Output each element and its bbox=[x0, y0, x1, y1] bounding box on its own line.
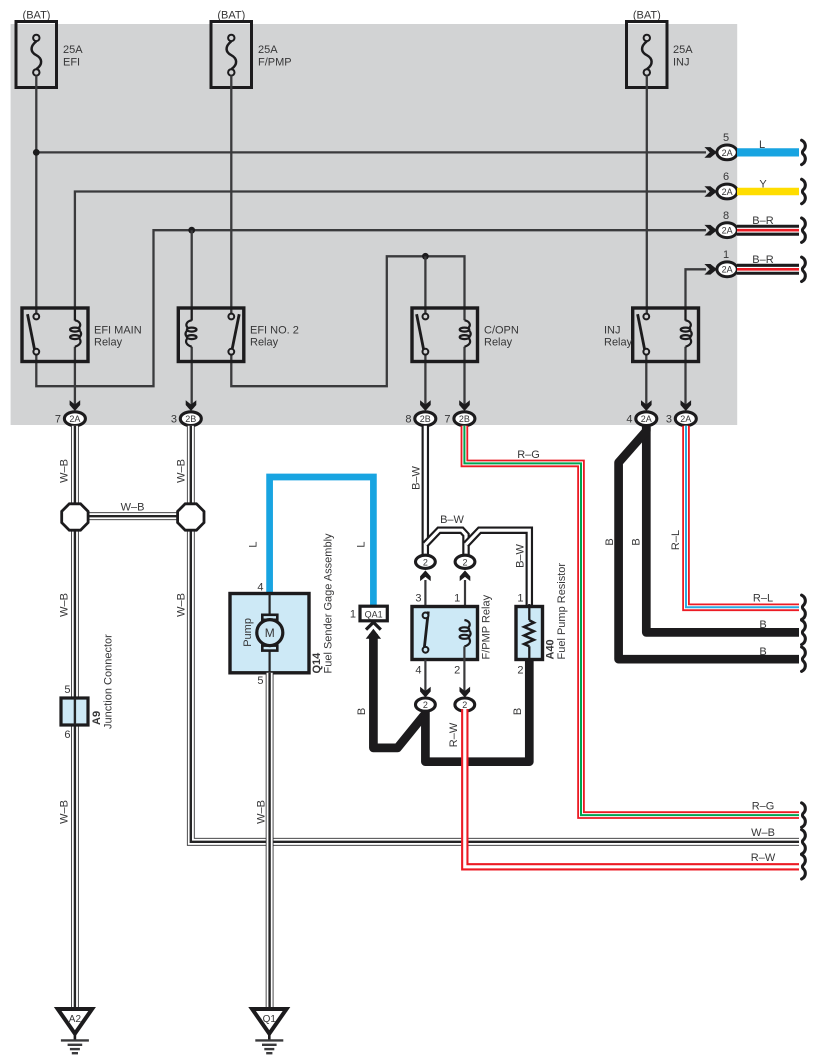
wire R-W from pin 2 connector to page edge bbox=[465, 709, 799, 867]
connector 2 below F/PMP relay pin 4 bbox=[416, 687, 436, 711]
relay C/OPN bbox=[412, 308, 519, 362]
wire W-B between octagon junctions bbox=[75, 515, 191, 517]
svg-text:25A: 25A bbox=[258, 44, 278, 56]
continuation curly for B lower bbox=[802, 647, 806, 671]
svg-text:W–B: W–B bbox=[59, 800, 71, 824]
wire L blue stub bbox=[737, 148, 799, 156]
continuation curly for R-W bbox=[802, 855, 806, 879]
node: junction dot on EFI fuse line bbox=[33, 149, 40, 156]
svg-text:R–L: R–L bbox=[753, 592, 773, 604]
svg-text:1: 1 bbox=[723, 249, 729, 261]
wire B-W from 8 2B down to F/PMP relay connector bbox=[424, 426, 426, 555]
svg-text:25A: 25A bbox=[673, 44, 693, 56]
svg-text:6: 6 bbox=[723, 171, 729, 183]
svg-text:5: 5 bbox=[723, 132, 729, 144]
svg-text:A2: A2 bbox=[69, 1014, 82, 1025]
svg-text:Q14: Q14 bbox=[311, 652, 323, 674]
connector 7 2A below EFI MAIN relay bbox=[55, 400, 86, 425]
svg-text:2A: 2A bbox=[641, 414, 652, 424]
relay F/PMP bbox=[412, 592, 493, 676]
svg-text:2: 2 bbox=[423, 700, 428, 710]
wire F/PMP pin 2 down to connector bbox=[463, 646, 465, 691]
continuation curly for R-L bbox=[802, 595, 806, 619]
svg-text:(BAT): (BAT) bbox=[23, 9, 51, 21]
wire B-W from pin 1 connector to A40 pin 1 bbox=[466, 530, 529, 606]
wire: EFI MAIN coil bottom to connector 7 2A bbox=[74, 347, 76, 405]
svg-text:Junction Connector: Junction Connector bbox=[103, 634, 115, 729]
svg-text:B: B bbox=[631, 538, 643, 545]
wire: C/OPN bus down to C/OPN switch bbox=[424, 256, 426, 313]
svg-text:L: L bbox=[356, 541, 368, 547]
continuation curly for Y bbox=[802, 179, 806, 203]
svg-text:2B: 2B bbox=[185, 414, 196, 424]
svg-text:Relay: Relay bbox=[484, 336, 513, 348]
svg-text:EFI MAIN: EFI MAIN bbox=[94, 324, 142, 336]
svg-text:7: 7 bbox=[444, 414, 450, 426]
svg-text:R–G: R–G bbox=[752, 800, 775, 812]
svg-text:2A: 2A bbox=[722, 226, 733, 236]
svg-text:(BAT): (BAT) bbox=[217, 9, 245, 21]
connector 4 2A below INJ relay bbox=[626, 400, 656, 425]
svg-text:3: 3 bbox=[666, 414, 672, 426]
svg-text:W–B: W–B bbox=[59, 593, 71, 617]
wire F/PMP pin 4 down to connector bbox=[424, 660, 426, 692]
svg-text:2A: 2A bbox=[69, 414, 80, 424]
svg-text:B–W: B–W bbox=[411, 465, 423, 489]
svg-text:4: 4 bbox=[257, 582, 263, 594]
wire: C/OPN switch bottom to connector 8 2B bbox=[424, 355, 426, 405]
svg-text:F/PMP: F/PMP bbox=[258, 56, 292, 68]
svg-text:4: 4 bbox=[415, 664, 421, 676]
wire: EFI MAIN coil top to connector 6 2A bbox=[75, 192, 706, 309]
wire B-R stub bbox=[737, 229, 799, 231]
svg-text:Pump: Pump bbox=[242, 618, 254, 647]
svg-text:1: 1 bbox=[350, 609, 356, 621]
relay EFI NO.2 bbox=[178, 308, 299, 362]
svg-text:W–B: W–B bbox=[256, 800, 268, 824]
svg-text:W–B: W–B bbox=[751, 827, 775, 839]
svg-text:B: B bbox=[512, 708, 524, 715]
wire: horizontal feed to connector 5 2A bbox=[36, 151, 706, 153]
svg-text:Y: Y bbox=[759, 178, 767, 190]
wire B thick from 4 2A to page edge upper bbox=[646, 426, 799, 632]
wire: INJ fuse down to INJ relay switch bbox=[646, 76, 648, 314]
connector 2 above F/PMP relay pin 3 bbox=[416, 555, 436, 581]
svg-text:W–B: W–B bbox=[59, 459, 71, 483]
connector 2 above F/PMP relay pin 1 bbox=[455, 555, 475, 581]
continuation curly for B upper bbox=[802, 620, 806, 644]
continuation curly for R-G bbox=[802, 803, 806, 827]
svg-text:B–R: B–R bbox=[752, 254, 773, 266]
ground Q1 bbox=[252, 1009, 286, 1053]
svg-text:W–B: W–B bbox=[176, 459, 188, 483]
connector 1 2A with arrow and B-R wire stub bbox=[704, 249, 737, 277]
svg-text:25A: 25A bbox=[63, 44, 83, 56]
wire R-L from 3 2A to page edge bbox=[686, 426, 799, 608]
svg-text:W–B: W–B bbox=[121, 502, 145, 514]
svg-text:R–L: R–L bbox=[670, 530, 682, 550]
svg-text:3: 3 bbox=[415, 592, 421, 604]
ground A2 bbox=[58, 1009, 92, 1053]
svg-text:8: 8 bbox=[405, 414, 411, 426]
svg-text:1: 1 bbox=[517, 592, 523, 604]
wire F/PMP pin 1 up to connector bbox=[464, 580, 466, 619]
wire B thick from QA1 to F/PMP relay pin 4 connector bbox=[373, 634, 424, 748]
wire R-G from 7 2B to page edge bbox=[464, 426, 799, 815]
junction connector A9 bbox=[61, 634, 115, 741]
fuse EFI 25A bbox=[16, 9, 83, 87]
wire F/PMP pin 3 up to connector bbox=[424, 580, 426, 613]
svg-text:QA1: QA1 bbox=[365, 609, 383, 619]
continuation curly for L bbox=[802, 140, 806, 164]
svg-text:A40: A40 bbox=[545, 639, 557, 659]
svg-text:Relay: Relay bbox=[604, 336, 633, 348]
svg-text:B–W: B–W bbox=[440, 514, 464, 526]
connector 8 2A with arrow and B-R wire stub bbox=[704, 210, 737, 238]
svg-text:Fuel Pump Resistor: Fuel Pump Resistor bbox=[556, 563, 568, 660]
connector 7 2B below C/OPN relay bbox=[444, 400, 475, 425]
wire Y yellow stub bbox=[737, 188, 799, 196]
fuse F/PMP 25A bbox=[211, 9, 292, 87]
svg-text:INJ: INJ bbox=[673, 56, 690, 68]
wire: EFI NO.2 coil bottom to connector 3 2B bbox=[191, 347, 193, 405]
svg-text:L: L bbox=[247, 541, 259, 547]
svg-text:EFI NO. 2: EFI NO. 2 bbox=[250, 324, 299, 336]
svg-text:EFI: EFI bbox=[63, 56, 80, 68]
svg-text:R–G: R–G bbox=[517, 449, 540, 461]
svg-text:W–B: W–B bbox=[176, 593, 188, 617]
svg-text:R–W: R–W bbox=[448, 722, 460, 747]
svg-text:INJ: INJ bbox=[604, 324, 621, 336]
svg-text:Fuel Sender Gage Assembly: Fuel Sender Gage Assembly bbox=[323, 533, 335, 674]
wire L blue from pump to QA1 bbox=[270, 477, 374, 607]
octagon junction node right bbox=[178, 504, 204, 530]
svg-text:7: 7 bbox=[55, 414, 61, 426]
wire: EFI MAIN switch bottom bus to connector 8 2A bbox=[36, 230, 706, 386]
wire: INJ switch bottom to connector 4 2A bbox=[645, 355, 647, 405]
connector 2 below F/PMP relay pin 2 bbox=[455, 687, 475, 711]
wire: F/PMP fuse down to EFI NO.2 relay switch bbox=[230, 76, 232, 314]
svg-text:2B: 2B bbox=[420, 414, 431, 424]
svg-text:2: 2 bbox=[462, 557, 467, 567]
wire: EFI fuse down to EFI MAIN relay switch bbox=[35, 76, 37, 314]
wire B thick from 4 2A to page edge lower bbox=[619, 427, 799, 659]
svg-text:B–W: B–W bbox=[515, 543, 527, 567]
svg-text:B–R: B–R bbox=[752, 215, 773, 227]
svg-text:C/OPN: C/OPN bbox=[484, 324, 519, 336]
node: junction dot on C/OPN bus bbox=[422, 253, 429, 260]
svg-text:3: 3 bbox=[171, 414, 177, 426]
svg-text:2B: 2B bbox=[459, 414, 470, 424]
resistor A40 fuel pump resistor bbox=[516, 563, 568, 677]
svg-text:2: 2 bbox=[454, 664, 460, 676]
relay EFI MAIN bbox=[22, 308, 142, 362]
wire: INJ relay coil top to connector 1 2A bbox=[686, 269, 707, 308]
octagon junction node left bbox=[62, 504, 88, 530]
wire W-B from 7 2A down to ground A2 bbox=[74, 426, 76, 1009]
connector QA1 bbox=[350, 606, 387, 639]
wire B thick from pin 4 connector to A40 pin 2 bbox=[425, 658, 529, 762]
relay INJ bbox=[604, 308, 699, 362]
svg-text:R–W: R–W bbox=[751, 852, 776, 864]
wire W-B from 3 2B down and right to page edge bbox=[191, 426, 799, 842]
svg-text:2: 2 bbox=[517, 664, 523, 676]
wire B-W branch to F/PMP pin 1 connector bbox=[425, 530, 466, 554]
svg-text:Relay: Relay bbox=[94, 336, 123, 348]
svg-text:2A: 2A bbox=[680, 414, 691, 424]
svg-text:4: 4 bbox=[626, 414, 632, 426]
svg-text:B: B bbox=[759, 619, 766, 631]
wire: EFI NO.2 switch bottom bus up to C/OPN relay bus bbox=[231, 256, 464, 386]
continuation curly for W-B bbox=[802, 830, 806, 854]
svg-text:F/PMP Relay: F/PMP Relay bbox=[481, 594, 493, 659]
wire W-B from pump to ground Q1 bbox=[269, 673, 271, 1009]
fuse INJ 25A bbox=[627, 9, 694, 87]
svg-text:Relay: Relay bbox=[250, 336, 279, 348]
connector 5 2A with arrow and L wire stub bbox=[704, 132, 737, 160]
connector 8 2B below C/OPN relay bbox=[405, 400, 435, 425]
svg-text:(BAT): (BAT) bbox=[633, 9, 661, 21]
continuation curly for B-R bbox=[802, 218, 806, 242]
svg-text:2A: 2A bbox=[722, 148, 733, 158]
connector 6 2A with arrow and Y wire stub bbox=[704, 171, 737, 199]
svg-text:B: B bbox=[356, 708, 368, 715]
svg-text:Q1: Q1 bbox=[263, 1014, 277, 1025]
svg-text:5: 5 bbox=[64, 684, 70, 696]
node: junction dot to EFI NO.2 coil bbox=[188, 227, 195, 234]
connector 3 2B below EFI NO.2 relay bbox=[171, 400, 201, 425]
svg-text:2A: 2A bbox=[722, 265, 733, 275]
svg-text:8: 8 bbox=[723, 210, 729, 222]
wire: INJ coil bottom to connector 3 2A bbox=[684, 347, 686, 405]
svg-text:2: 2 bbox=[423, 557, 428, 567]
wire: dot down to EFI NO.2 coil top bbox=[191, 230, 193, 308]
svg-text:1: 1 bbox=[454, 592, 460, 604]
svg-text:6: 6 bbox=[64, 729, 70, 741]
svg-text:M: M bbox=[265, 626, 275, 640]
continuation curly for B-R 2 bbox=[802, 257, 806, 281]
svg-text:B: B bbox=[759, 646, 766, 658]
connector 3 2A below INJ relay bbox=[666, 400, 696, 425]
svg-text:5: 5 bbox=[257, 675, 263, 687]
svg-text:B: B bbox=[604, 538, 616, 545]
fuel pump Q14 assembly bbox=[230, 533, 335, 687]
wire: C/OPN coil bottom to connector 7 2B bbox=[463, 347, 465, 405]
wire B-R stub 2 bbox=[737, 268, 799, 270]
svg-text:2: 2 bbox=[462, 700, 467, 710]
svg-text:2A: 2A bbox=[722, 187, 733, 197]
svg-text:A9: A9 bbox=[91, 711, 103, 725]
grey background panel bbox=[11, 24, 738, 425]
svg-text:L: L bbox=[759, 139, 765, 151]
